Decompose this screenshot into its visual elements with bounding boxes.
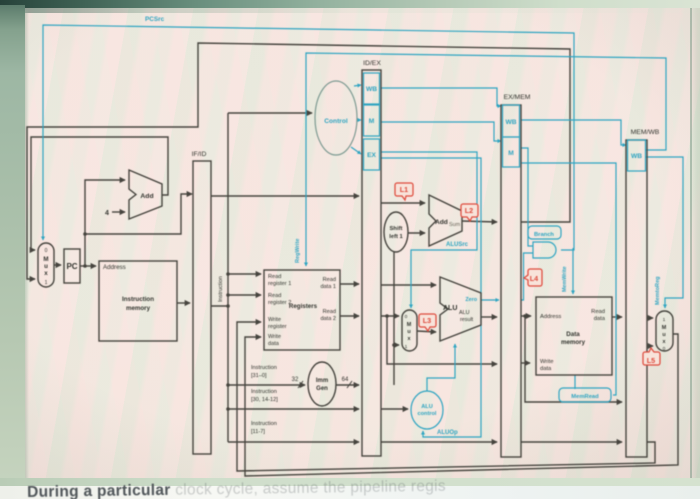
svg-text:memory: memory <box>126 305 151 312</box>
svg-text:Instruction: Instruction <box>251 421 277 427</box>
svg-text:Read: Read <box>323 277 336 283</box>
svg-text:EX/MEM: EX/MEM <box>504 94 531 101</box>
svg-text:Write: Write <box>540 359 553 365</box>
svg-text:Control: Control <box>324 118 348 125</box>
svg-text:left 1: left 1 <box>389 234 403 240</box>
svg-text:IF/ID: IF/ID <box>192 151 207 158</box>
svg-text:PCSrc: PCSrc <box>145 16 165 23</box>
svg-text:WB: WB <box>506 119 517 126</box>
svg-text:ALU: ALU <box>459 310 470 316</box>
svg-text:MemRead: MemRead <box>571 394 599 400</box>
svg-text:ALU: ALU <box>443 305 457 312</box>
svg-text:register: register <box>268 324 287 330</box>
svg-text:M: M <box>43 256 48 263</box>
svg-text:L4: L4 <box>530 274 538 283</box>
svg-text:4: 4 <box>105 210 109 217</box>
svg-text:[11-7]: [11-7] <box>251 429 265 435</box>
svg-text:data 2: data 2 <box>320 316 336 322</box>
svg-text:Add: Add <box>140 193 153 200</box>
svg-text:Instruction: Instruction <box>251 389 277 395</box>
svg-text:Add: Add <box>435 219 448 226</box>
svg-text:u: u <box>662 332 665 338</box>
svg-text:Instruction: Instruction <box>251 365 277 371</box>
svg-text:1: 1 <box>45 280 48 286</box>
svg-text:ALUSrc: ALUSrc <box>446 242 469 248</box>
svg-text:data: data <box>540 366 552 372</box>
svg-text:Sum: Sum <box>449 222 461 228</box>
svg-text:[30, 14-12]: [30, 14-12] <box>251 397 278 403</box>
svg-text:ALU: ALU <box>421 404 433 410</box>
svg-text:M: M <box>662 325 667 331</box>
svg-text:1: 1 <box>405 344 408 350</box>
svg-text:PC: PC <box>66 262 77 271</box>
svg-text:Address: Address <box>103 264 126 271</box>
svg-text:Address: Address <box>540 314 561 320</box>
svg-text:1: 1 <box>663 317 666 323</box>
svg-text:RegWrite: RegWrite <box>295 239 301 263</box>
svg-text:Branch: Branch <box>534 232 554 238</box>
svg-text:Zero: Zero <box>465 297 477 303</box>
svg-text:ID/EX: ID/EX <box>363 60 381 67</box>
svg-text:data: data <box>268 341 280 347</box>
svg-text:data: data <box>594 316 606 322</box>
svg-text:Read: Read <box>323 309 336 315</box>
svg-text:[31–0]: [31–0] <box>251 373 267 379</box>
svg-text:ALUOp: ALUOp <box>437 430 458 436</box>
svg-text:L5: L5 <box>647 356 655 365</box>
svg-text:Write: Write <box>268 334 281 340</box>
svg-text:Shift: Shift <box>390 226 403 232</box>
svg-text:MEM/WB: MEM/WB <box>631 129 660 136</box>
svg-text:x: x <box>408 336 411 342</box>
svg-text:M: M <box>369 118 375 125</box>
svg-text:M: M <box>508 150 514 157</box>
svg-text:control: control <box>418 411 437 417</box>
svg-text:data 1: data 1 <box>320 284 336 290</box>
svg-text:Instruction: Instruction <box>218 276 224 302</box>
svg-text:Gen: Gen <box>316 386 328 392</box>
svg-text:memory: memory <box>561 339 586 346</box>
svg-text:x: x <box>44 270 48 277</box>
svg-text:WB: WB <box>366 86 377 93</box>
svg-text:0: 0 <box>45 248 48 254</box>
svg-text:0: 0 <box>405 314 408 320</box>
svg-text:WB: WB <box>631 153 642 160</box>
svg-text:Data: Data <box>566 331 580 338</box>
svg-text:Registers: Registers <box>289 303 318 310</box>
svg-text:Instruction: Instruction <box>122 296 154 303</box>
svg-text:L1: L1 <box>400 185 408 194</box>
svg-text:MemtoReg: MemtoReg <box>655 276 661 305</box>
svg-text:32: 32 <box>292 377 299 383</box>
svg-text:EX: EX <box>367 152 376 159</box>
svg-text:Read: Read <box>268 274 281 280</box>
svg-text:64: 64 <box>342 377 349 383</box>
svg-text:u: u <box>407 329 410 335</box>
svg-text:0: 0 <box>663 346 666 352</box>
svg-text:register 2: register 2 <box>268 300 291 306</box>
svg-text:M: M <box>407 322 412 328</box>
svg-text:u: u <box>44 263 48 270</box>
svg-text:MemWrite: MemWrite <box>562 266 568 292</box>
svg-text:Imm: Imm <box>316 378 328 384</box>
svg-text:register 1: register 1 <box>268 281 291 287</box>
svg-text:result: result <box>460 317 474 323</box>
svg-text:L2: L2 <box>465 206 473 215</box>
svg-text:Read: Read <box>268 293 281 299</box>
svg-text:x: x <box>663 339 666 345</box>
svg-text:L3: L3 <box>423 316 431 325</box>
svg-text:Write: Write <box>268 317 281 323</box>
svg-text:Read: Read <box>591 309 605 315</box>
